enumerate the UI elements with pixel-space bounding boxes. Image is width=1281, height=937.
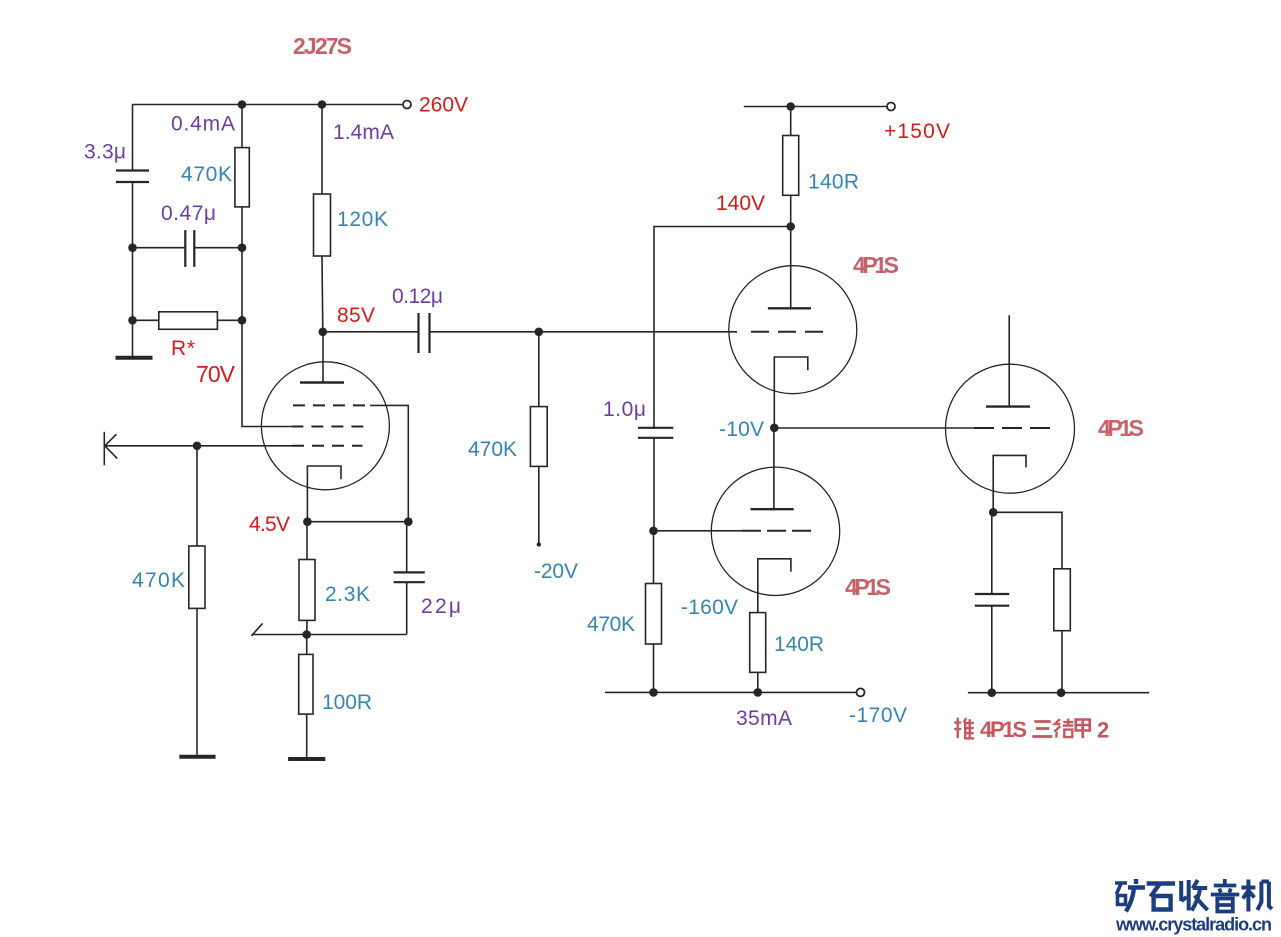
node junction 1.0u-V3 grid bbox=[649, 527, 658, 536]
node junction rail-120K bbox=[318, 100, 327, 109]
node junction cathode-2.3K bbox=[303, 517, 312, 526]
tube V2 anode plate bbox=[768, 307, 811, 309]
wire top rail left (260V supply) bbox=[132, 104, 402, 106]
tube V1 anode lead bbox=[322, 332, 324, 383]
node junction 22u top bbox=[404, 517, 413, 526]
capacitor C6 bbox=[991, 512, 993, 594]
svg-text:+150V: +150V bbox=[884, 120, 950, 143]
tube V1 grid g2 dashed bbox=[291, 426, 365, 428]
node junction rail-470K bbox=[649, 688, 658, 697]
svg-text:2: 2 bbox=[1097, 718, 1109, 743]
tube V3 anode lead bbox=[773, 428, 775, 509]
tube V4 grid dashed bbox=[974, 427, 1051, 429]
resistor R9 140R bottom bbox=[750, 613, 766, 673]
wire top rail right (+150V) bbox=[744, 106, 887, 108]
node junction coupling-470K bbox=[535, 328, 544, 337]
tube V3 grid dashed bbox=[742, 530, 815, 532]
endpoint -20V bbox=[537, 542, 541, 546]
node junction rail-C6 bbox=[988, 688, 997, 697]
svg-text:0.12μ: 0.12μ bbox=[392, 285, 443, 308]
resistor R* horizontal bbox=[133, 319, 159, 321]
svg-text:470K: 470K bbox=[132, 569, 185, 592]
wire cathode network right bbox=[993, 512, 1062, 569]
tube V1 anode plate bbox=[300, 381, 344, 383]
wire -10V to V4 grid bbox=[774, 427, 974, 429]
terminal -170V bbox=[857, 688, 865, 696]
capacitor C2 0.47u bbox=[133, 247, 186, 249]
tube V3 anode plate bbox=[751, 508, 794, 510]
svg-text:85V: 85V bbox=[337, 304, 375, 327]
tube V2 anode lead bbox=[790, 227, 792, 309]
capacitor C1 3.3u bbox=[116, 171, 149, 183]
wire C1 bottom to ground branch bbox=[132, 182, 134, 357]
wire 4.5V cathode line bbox=[307, 521, 408, 523]
node junction rail-140R bbox=[786, 102, 795, 111]
svg-text:1.0μ: 1.0μ bbox=[603, 398, 646, 421]
node junction input-470K bbox=[193, 442, 202, 451]
wire V3 grid bbox=[654, 530, 743, 532]
input arrow terminal bbox=[103, 432, 105, 466]
tube V4 4P1S right envelope bbox=[946, 364, 1075, 493]
node junction rail-470K bbox=[238, 100, 247, 109]
resistor R7 140R top bbox=[790, 107, 792, 136]
svg-text:4P1S: 4P1S bbox=[1098, 415, 1144, 441]
node -10V junction bbox=[770, 424, 779, 433]
tube V3 4P1S mid envelope bbox=[711, 467, 839, 595]
wm char yin bbox=[1211, 879, 1240, 912]
node junction V4 cathode bbox=[989, 508, 998, 517]
wire coupling to V2 grid bbox=[430, 331, 738, 333]
ground G3 bbox=[288, 757, 325, 761]
caption char tui bbox=[954, 718, 974, 739]
wm char kuang bbox=[1115, 879, 1145, 912]
svg-text:4P1S: 4P1S bbox=[845, 574, 891, 600]
capacitor C5 1.0u bbox=[638, 428, 673, 438]
tube V4 anode lead bbox=[1008, 315, 1010, 406]
svg-text:www.crystalradio.cn: www.crystalradio.cn bbox=[1115, 915, 1272, 935]
wm char shou bbox=[1181, 880, 1208, 911]
svg-text:470K: 470K bbox=[181, 163, 232, 186]
resistor R5 100R bbox=[306, 635, 308, 655]
ground G1 bbox=[116, 356, 153, 360]
svg-text:0.47μ: 0.47μ bbox=[161, 202, 216, 225]
wire input to g1 bbox=[105, 445, 292, 447]
wire bottom rail mid (-170V) bbox=[605, 691, 856, 693]
tube V2 4P1S top envelope bbox=[729, 266, 857, 394]
svg-text:140R: 140R bbox=[808, 171, 859, 194]
svg-text:35mA: 35mA bbox=[736, 707, 792, 730]
svg-text:0.4mA: 0.4mA bbox=[171, 113, 235, 136]
tube V1 2J27S envelope bbox=[261, 362, 389, 490]
wm char ji bbox=[1241, 880, 1272, 912]
svg-text:-160V: -160V bbox=[681, 596, 738, 619]
resistor R2 120K vertical bbox=[321, 105, 323, 195]
tube V1 grid g1 dashed bbox=[292, 445, 363, 447]
wire bottom rail right bbox=[968, 692, 1149, 694]
svg-text:22μ: 22μ bbox=[421, 595, 461, 618]
resistor R3 470K input bbox=[196, 446, 198, 546]
node 85V junction bbox=[319, 328, 328, 337]
terminal 260V bbox=[403, 101, 411, 109]
tube V2 cathode bbox=[774, 357, 808, 428]
watermark kuangshishouyinji bbox=[1115, 879, 1272, 912]
caption char jie bbox=[1054, 719, 1073, 738]
node junction rail-R10 bbox=[1057, 688, 1066, 697]
svg-text:120K: 120K bbox=[337, 208, 388, 231]
caption tui 4P1S sanjiejia 2 bbox=[954, 717, 1109, 743]
terminal +150V bbox=[887, 103, 895, 111]
wire left drop to C1 bbox=[132, 105, 134, 171]
tube V4 cathode bbox=[993, 455, 1026, 512]
wm char shi bbox=[1147, 884, 1176, 910]
node junction left-0.47u bbox=[128, 243, 137, 252]
wire feedback tap line bbox=[252, 634, 407, 636]
tube V1 cathode bbox=[307, 466, 341, 522]
svg-text:470K: 470K bbox=[587, 613, 635, 636]
svg-text:4P1S: 4P1S bbox=[980, 717, 1027, 742]
tube V2 grid dashed bbox=[751, 331, 831, 333]
svg-text:470K: 470K bbox=[468, 438, 517, 461]
svg-text:-170V: -170V bbox=[849, 704, 907, 727]
svg-text:140R: 140R bbox=[774, 633, 824, 656]
svg-text:3.3μ: 3.3μ bbox=[84, 141, 126, 164]
svg-text:R*: R* bbox=[171, 337, 195, 360]
caption char san bbox=[1032, 722, 1052, 737]
svg-text:-20V: -20V bbox=[534, 560, 578, 583]
resistor R10 bbox=[1054, 569, 1071, 631]
tube V4 anode plate bbox=[986, 405, 1030, 407]
resistor R6 470K grid leak bbox=[538, 332, 540, 407]
wire g3 to cathode node bbox=[370, 405, 408, 521]
resistor R4 2.3K bbox=[306, 522, 308, 560]
tube V1 grid g3 dashed bbox=[293, 404, 370, 406]
caption char jia bbox=[1076, 720, 1090, 739]
svg-text:4.5V: 4.5V bbox=[249, 513, 290, 536]
capacitor C4 0.12u coupling bbox=[323, 331, 419, 333]
node 140V junction bbox=[786, 222, 795, 231]
svg-text:140V: 140V bbox=[716, 192, 765, 215]
node junction left-R* bbox=[128, 316, 137, 325]
svg-text:100R: 100R bbox=[322, 691, 372, 714]
svg-text:4P1S: 4P1S bbox=[853, 252, 899, 278]
node junction rail-140R bbox=[754, 688, 763, 697]
capacitor C3 22u bbox=[406, 522, 408, 573]
svg-text:2.3K: 2.3K bbox=[325, 583, 370, 606]
svg-text:260V: 260V bbox=[419, 94, 468, 117]
node junction R*-R1 bbox=[238, 316, 247, 325]
svg-text:-10V: -10V bbox=[719, 418, 764, 441]
svg-text:2J27S: 2J27S bbox=[293, 33, 352, 59]
ground G2 bbox=[179, 755, 215, 759]
resistor R8 470K grid leak V3 bbox=[653, 531, 655, 584]
arrow tap tick bbox=[252, 623, 263, 635]
resistor R1 470K vertical bbox=[241, 105, 243, 148]
svg-text:1.4mA: 1.4mA bbox=[333, 121, 394, 144]
node junction 0.47u-R1 bbox=[238, 243, 247, 252]
tube V3 cathode bbox=[758, 559, 791, 613]
node junction 2.3K-100R bbox=[302, 630, 311, 639]
wire 70V grid feed bbox=[242, 248, 291, 427]
svg-text:70V: 70V bbox=[196, 361, 236, 387]
wire 140V to 1.0u bbox=[654, 227, 791, 428]
